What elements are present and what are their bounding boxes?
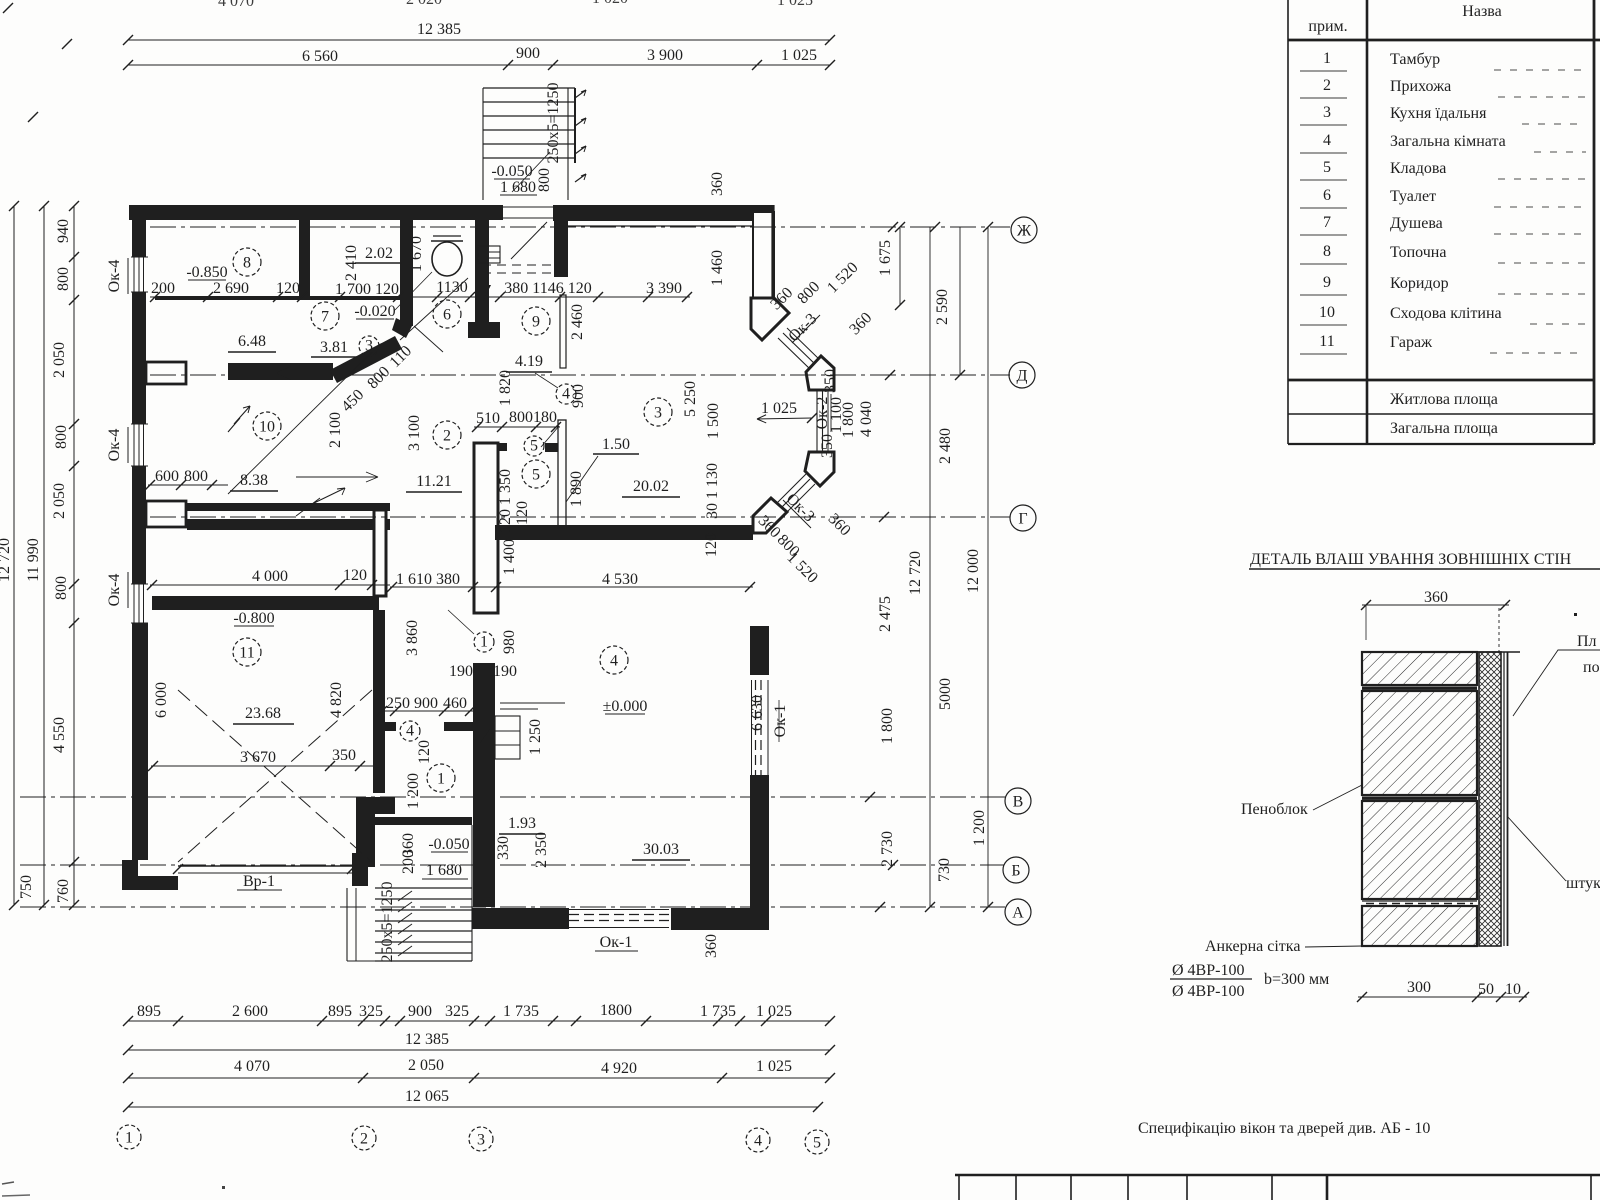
svg-text:20.02: 20.02: [633, 478, 669, 495]
entrance stair treads: [483, 88, 575, 200]
table row 7 Душева: [1300, 214, 1586, 235]
bottom axis circle 4: [746, 1128, 770, 1152]
svg-text:360: 360: [709, 172, 726, 196]
svg-text:10: 10: [259, 418, 275, 435]
svg-text:325: 325: [445, 1003, 469, 1020]
svg-text:Ок-1: Ок-1: [772, 705, 789, 738]
elevation mark room4: [603, 698, 648, 715]
dim row 4000-120 above garage: [147, 567, 390, 590]
svg-text:11.21: 11.21: [416, 473, 451, 490]
window Ок-4 upper glazing: [131, 257, 148, 292]
svg-text:Ок-4: Ок-4: [106, 260, 123, 293]
left exterior wall seg1: [132, 205, 146, 257]
stair room top wall: [375, 817, 472, 825]
svg-text:940: 940: [55, 219, 72, 243]
svg-text:ДЕТАЛЬ ВЛАШ УВАННЯ ЗОВНІШНІХ С: ДЕТАЛЬ ВЛАШ УВАННЯ ЗОВНІШНІХ СТІН: [1250, 551, 1572, 568]
svg-text:8.38: 8.38: [240, 472, 268, 489]
svg-text:2 480: 2 480: [937, 428, 954, 464]
toilet room left wall: [400, 217, 413, 326]
svg-text:Топочна: Топочна: [1390, 244, 1446, 261]
axis circle Г: [1010, 505, 1036, 531]
svg-text:2: 2: [360, 1130, 368, 1147]
bottom dim row2 12385: [123, 1031, 835, 1055]
svg-text:прим.: прим.: [1308, 18, 1347, 35]
svg-text:895: 895: [328, 1003, 352, 1020]
svg-text:190: 190: [493, 663, 517, 680]
svg-text:900: 900: [408, 1003, 432, 1020]
svg-text:4 040: 4 040: [858, 401, 875, 437]
entrance door gap lines: [503, 207, 553, 259]
svg-text:4 820: 4 820: [328, 682, 345, 718]
detail foam block 3: [1362, 801, 1477, 899]
svg-text:350: 350: [332, 747, 356, 764]
svg-text:360: 360: [1424, 589, 1448, 606]
room4 right wall upper: [750, 626, 769, 675]
bottom axis circle 3: [469, 1127, 493, 1151]
svg-text:1 735: 1 735: [503, 1003, 539, 1020]
svg-text:2 050: 2 050: [408, 1057, 444, 1074]
svg-text:4 000: 4 000: [252, 568, 288, 585]
svg-text:-0.850: -0.850: [186, 264, 227, 281]
svg-text:2: 2: [1323, 77, 1331, 94]
central thick wall: [473, 443, 507, 907]
svg-text:±0.000: ±0.000: [603, 698, 648, 715]
svg-text:2 050: 2 050: [51, 483, 68, 519]
detail title: [1249, 551, 1600, 569]
right exterior wall upper: [753, 205, 774, 300]
vent grille: [478, 246, 556, 273]
main stair treads: [375, 825, 472, 961]
svg-text:1 350: 1 350: [497, 469, 514, 505]
svg-text:5000: 5000: [937, 678, 954, 710]
area label 4.19: [506, 353, 552, 372]
door swing triangle hall: [483, 285, 491, 301]
svg-text:12 065: 12 065: [405, 1088, 449, 1105]
axis line В: [20, 796, 1005, 798]
svg-text:4 530: 4 530: [602, 571, 638, 588]
room circle 1 lower: [427, 764, 455, 792]
detail foam block 1: [1362, 652, 1477, 685]
dims room4: [703, 695, 789, 958]
svg-text:800: 800: [184, 468, 208, 485]
detail plaster layer lines: [1504, 652, 1508, 946]
bottom dim row4 12065: [123, 1088, 823, 1112]
toilet room bottom wall: [392, 318, 500, 338]
door swing room5: [541, 426, 559, 447]
room4 right wall lower: [750, 775, 769, 929]
garage gate right pier: [352, 853, 368, 886]
svg-text:330: 330: [495, 836, 512, 860]
bay dims rotated 45 upper: [767, 259, 875, 345]
svg-text:800: 800: [53, 576, 70, 600]
svg-text:-0.050: -0.050: [428, 836, 469, 853]
elevation mark garage: [233, 610, 274, 627]
stair porch side: [347, 888, 375, 961]
door mark circle 4 room1: [400, 721, 420, 741]
dim 1025 room3 with arrow: [757, 400, 817, 423]
axis line Б: [20, 864, 1004, 866]
svg-text:4: 4: [610, 652, 618, 669]
svg-text:Кухня їдальня: Кухня їдальня: [1390, 105, 1487, 122]
svg-text:1 800: 1 800: [840, 402, 857, 438]
window Ок-4 lower glazing: [131, 584, 148, 623]
svg-text:190: 190: [449, 663, 473, 680]
interior dim row under room8: [150, 279, 692, 302]
svg-text:1 820: 1 820: [497, 370, 514, 406]
svg-text:1: 1: [437, 770, 445, 787]
detail foam block 2: [1362, 691, 1477, 795]
svg-text:Гараж: Гараж: [1390, 334, 1433, 351]
detail dim 360: [1361, 589, 1510, 652]
bay dims Ок-2: [814, 369, 875, 458]
svg-text:1.93: 1.93: [508, 815, 536, 832]
svg-text:2 100: 2 100: [327, 412, 344, 448]
svg-text:900: 900: [414, 695, 438, 712]
detail foam block 4: [1362, 906, 1477, 946]
label 4BP-100 first: [1170, 962, 1252, 979]
room 7 bottom wall: [228, 363, 333, 380]
svg-text:Ø 4ВР-100: Ø 4ВР-100: [1172, 983, 1244, 1000]
svg-text:Ок-4: Ок-4: [106, 429, 123, 462]
svg-text:2 600: 2 600: [232, 1003, 268, 1020]
svg-text:6 000: 6 000: [153, 682, 170, 718]
svg-text:Душева: Душева: [1390, 215, 1443, 232]
door swing triangle room7: [276, 366, 291, 380]
arrow corridor room10: [296, 472, 378, 482]
table row 3 Кухня їдальня: [1300, 104, 1586, 125]
svg-text:325: 325: [359, 1003, 383, 1020]
area label 1.93: [499, 815, 545, 834]
svg-text:2 350: 2 350: [533, 832, 550, 868]
svg-text:12 000: 12 000: [965, 549, 982, 593]
svg-text:4: 4: [406, 722, 414, 739]
area label 8.38: [230, 472, 278, 491]
thin partition rooms 5-3: [558, 420, 566, 528]
svg-text:3 670: 3 670: [240, 749, 276, 766]
detail bottom dims: [1357, 979, 1529, 1002]
axis circle Д: [1009, 362, 1035, 388]
vertical wall between corridor and hall: [374, 510, 386, 596]
area label 30.03: [632, 841, 690, 860]
stair direction ticks: [379, 881, 412, 962]
svg-text:1 400: 1 400: [501, 539, 518, 575]
detail anchor mesh layer cross-hatched: [1479, 652, 1501, 946]
svg-text:750: 750: [18, 875, 35, 899]
toilet door swing: [414, 326, 443, 352]
inner wall face line room 9: [556, 225, 753, 227]
svg-text:6.48: 6.48: [238, 333, 266, 350]
svg-text:250х5=1250: 250х5=1250: [379, 881, 396, 962]
svg-text:Туалет: Туалет: [1390, 188, 1436, 205]
vent pier right of toilet: [554, 205, 568, 277]
toilet room right wall: [475, 205, 489, 325]
svg-text:120: 120: [497, 509, 514, 533]
bottom axis circle 2: [352, 1126, 376, 1150]
svg-text:2 020: 2 020: [406, 0, 442, 8]
svg-text:8: 8: [243, 254, 251, 271]
dims room1 door: [373, 539, 550, 874]
detail top line: [1362, 651, 1520, 653]
right window Ок-1 glazing: [752, 680, 769, 775]
window label Ок-4 lower: [106, 572, 128, 608]
svg-text:350: 350: [819, 434, 836, 458]
label Пл fragment: [1513, 633, 1600, 716]
svg-text:5: 5: [813, 1134, 821, 1151]
dim 600 800 corridor: [145, 468, 228, 490]
left dim chain 940-800-2050-800-2050-800-4550-760: [18, 201, 79, 910]
vent shaft room 1: [495, 703, 565, 759]
svg-text:Загальна площа: Загальна площа: [1390, 420, 1498, 437]
area label 23.68: [233, 705, 294, 724]
svg-text:250: 250: [386, 695, 410, 712]
svg-text:2.02: 2.02: [365, 245, 393, 262]
svg-text:200: 200: [400, 850, 417, 874]
door mark circle 5: [524, 436, 544, 456]
long wall under rooms 2-5-3: [495, 525, 753, 540]
svg-text:3.81: 3.81: [320, 339, 348, 356]
svg-text:180: 180: [533, 409, 557, 426]
toilet fixture: [431, 236, 463, 276]
svg-text:2: 2: [443, 427, 451, 444]
svg-text:3 100: 3 100: [406, 415, 423, 451]
detail mortar joints: [1362, 687, 1477, 904]
svg-text:Загальна кімната: Загальна кімната: [1390, 133, 1506, 150]
corridor wall 8.38 upper band: [187, 503, 390, 511]
window label Ок-4 middle: [106, 427, 128, 463]
svg-text:Пеноблок: Пеноблок: [1241, 801, 1308, 818]
svg-text:А: А: [1012, 904, 1024, 921]
svg-text:Пл: Пл: [1577, 633, 1597, 650]
svg-text:Г: Г: [1018, 510, 1027, 527]
svg-text:-0.050: -0.050: [491, 163, 532, 180]
left exterior wall seg3 with pier: [132, 466, 186, 584]
elevation mark room7: [354, 272, 432, 320]
svg-text:2 460: 2 460: [569, 304, 586, 340]
svg-text:3: 3: [365, 337, 373, 354]
svg-text:730: 730: [936, 858, 953, 882]
svg-text:1 800: 1 800: [879, 708, 896, 744]
svg-text:1 890: 1 890: [568, 471, 585, 507]
area label 11.21: [406, 473, 462, 492]
room circle 11: [233, 638, 261, 666]
svg-text:1 025: 1 025: [777, 0, 813, 9]
area label 20.02: [622, 478, 680, 497]
svg-text:5: 5: [532, 466, 540, 483]
door mark circle 3: [359, 336, 379, 356]
top wall right part: [553, 205, 774, 221]
bay window Ок-3 lower glazing: [772, 474, 815, 518]
svg-text:980: 980: [501, 630, 518, 654]
svg-text:Специфікацію вікон та дверей д: Специфікацію вікон та дверей див. АБ - 1…: [1138, 1120, 1430, 1137]
svg-text:Ø 4ВР-100: Ø 4ВР-100: [1172, 962, 1244, 979]
svg-text:1 025: 1 025: [756, 1003, 792, 1020]
svg-text:200: 200: [151, 280, 175, 297]
svg-text:800: 800: [509, 409, 533, 426]
room circle 6: [433, 300, 461, 328]
table row 5 Кладова: [1300, 159, 1586, 180]
svg-text:-0.800: -0.800: [233, 610, 274, 627]
svg-text:4: 4: [754, 1132, 762, 1149]
partition room2-5 stub: [545, 443, 558, 452]
leader diagonal room7 3.81: [228, 343, 415, 494]
svg-text:23.68: 23.68: [245, 705, 281, 722]
svg-text:2 730: 2 730: [879, 831, 896, 867]
thin partition room9-3: [560, 295, 566, 368]
room1 lower left corner walls: [356, 797, 395, 867]
svg-text:800: 800: [536, 168, 553, 192]
label штук fragment: [1507, 816, 1600, 892]
bay corner upper: [751, 298, 789, 340]
elevation mark room8: [186, 264, 227, 281]
svg-text:1 460: 1 460: [709, 250, 726, 286]
left dim line 12720: [0, 201, 19, 910]
bay window Ок-3 upper glazing: [778, 328, 821, 371]
svg-text:380 1146 120: 380 1146 120: [504, 280, 591, 297]
svg-text:Б: Б: [1011, 862, 1020, 879]
svg-text:460: 460: [443, 695, 467, 712]
entrance stair rotated dims: [512, 82, 562, 192]
svg-text:250х5=1250: 250х5=1250: [545, 82, 562, 163]
rotated dims upper rooms: [327, 172, 726, 557]
svg-text:760: 760: [55, 879, 72, 903]
svg-text:12 720: 12 720: [0, 538, 13, 582]
svg-text:1 250: 1 250: [527, 719, 544, 755]
area label 1.50: [566, 436, 639, 502]
axis line Д: [150, 374, 1010, 376]
left exterior wall seg2 with pier: [132, 292, 186, 424]
svg-text:1.50: 1.50: [602, 436, 630, 453]
svg-text:1 500: 1 500: [705, 403, 722, 439]
room circle 8: [233, 248, 261, 276]
axis circle Б: [1003, 857, 1029, 883]
table row 11 Гараж: [1300, 333, 1586, 354]
svg-text:11: 11: [1319, 333, 1334, 350]
table row 9 Коридор: [1300, 274, 1586, 295]
bay lower pier: [805, 452, 834, 486]
svg-text:В: В: [1013, 793, 1024, 810]
svg-text:Ок-4: Ок-4: [106, 574, 123, 607]
corridor wall 8.38 lower band: [187, 519, 390, 530]
svg-text:1 025: 1 025: [761, 400, 797, 417]
room circle 10: [253, 412, 281, 440]
dimension 12 385 top: [123, 21, 835, 45]
detail stray dot: [1574, 613, 1577, 616]
axis circle А: [1005, 899, 1031, 925]
svg-text:4: 4: [1323, 132, 1331, 149]
svg-text:360: 360: [703, 934, 720, 958]
garage left wall: [132, 623, 148, 860]
room circle 5: [522, 460, 550, 488]
top wall left part: [129, 205, 503, 220]
room1 left wall: [373, 610, 385, 793]
room circle 2: [433, 421, 461, 449]
svg-text:3: 3: [654, 404, 662, 421]
svg-text:1 670: 1 670: [408, 236, 425, 272]
bottom left stray marks: [2, 1182, 225, 1196]
svg-text:4 070: 4 070: [234, 1058, 270, 1075]
bottom axis circle 5: [805, 1130, 829, 1154]
svg-text:10: 10: [1319, 304, 1335, 321]
svg-text:350: 350: [822, 369, 839, 393]
window Ок-4 middle glazing: [131, 424, 148, 466]
svg-text:12 385: 12 385: [405, 1031, 449, 1048]
svg-text:2 690: 2 690: [213, 280, 249, 297]
svg-text:1: 1: [1323, 50, 1331, 67]
svg-text:9: 9: [532, 313, 540, 330]
svg-text:900: 900: [570, 384, 587, 408]
svg-text:3: 3: [477, 1131, 485, 1148]
svg-text:Сходова клітина: Сходова клітина: [1390, 305, 1502, 322]
dim 510 800 180 room2: [472, 409, 561, 432]
elevation -0.050 entrance: [491, 163, 537, 196]
squiggle arrow corridor 8.38: [296, 488, 345, 516]
axis circle Ж: [1011, 217, 1037, 243]
svg-text:120: 120: [514, 501, 531, 525]
svg-text:Назва: Назва: [1462, 3, 1501, 20]
svg-text:1 200: 1 200: [405, 773, 422, 809]
svg-text:6 560: 6 560: [302, 48, 338, 65]
svg-text:1 680: 1 680: [500, 179, 536, 196]
svg-text:1 025: 1 025: [781, 47, 817, 64]
door mark circle 1: [448, 610, 494, 652]
svg-text:Д: Д: [1017, 367, 1028, 384]
svg-text:1: 1: [125, 1129, 133, 1146]
left dim line 11990: [25, 201, 49, 910]
bathroom wall 8-2.02 divider: [299, 217, 310, 297]
svg-text:30.03: 30.03: [643, 841, 679, 858]
door swing triangle room1: [480, 729, 490, 743]
svg-text:2 590: 2 590: [934, 289, 951, 325]
area label 6.48: [228, 333, 276, 352]
svg-text:5: 5: [530, 437, 538, 454]
svg-text:11 990: 11 990: [25, 538, 42, 581]
door swing room6: [400, 278, 468, 340]
svg-text:1 700 120: 1 700 120: [335, 281, 399, 298]
room circle 4: [600, 646, 628, 674]
svg-text:3 860: 3 860: [404, 620, 421, 656]
dim row 1610-380-4530: [387, 571, 755, 592]
svg-text:9: 9: [1323, 274, 1331, 291]
window label Ок-1 bottom: [595, 934, 638, 951]
table row 1 Тамбур: [1300, 50, 1586, 71]
svg-text:4 550: 4 550: [51, 717, 68, 753]
svg-text:900: 900: [516, 45, 540, 62]
svg-text:11: 11: [239, 644, 254, 661]
window label Ок-4 upper: [106, 258, 128, 294]
wall with door room 1: [382, 722, 473, 731]
svg-text:Ок-1: Ок-1: [600, 934, 633, 951]
svg-text:1 735: 1 735: [700, 1003, 736, 1020]
elevation -0.050 stair room: [422, 836, 470, 879]
svg-text:2 475: 2 475: [877, 596, 894, 632]
svg-text:по: по: [1583, 659, 1600, 676]
door mark circle 4 hall: [535, 373, 576, 404]
svg-text:50: 50: [1478, 981, 1494, 998]
svg-text:120: 120: [343, 567, 367, 584]
svg-text:Житлова площа: Житлова площа: [1390, 391, 1498, 408]
title block grid: [955, 1175, 1600, 1200]
entrance stair arrows: [575, 90, 586, 182]
right dim verticals: [895, 222, 993, 912]
top cut dimension row: [3, 0, 813, 122]
svg-text:4 070: 4 070: [218, 0, 254, 10]
svg-text:800: 800: [53, 425, 70, 449]
room circle 3: [644, 398, 672, 426]
bottom wall room1 left of window: [472, 908, 569, 929]
svg-text:12 385: 12 385: [417, 21, 461, 38]
svg-text:4 920: 4 920: [601, 1060, 637, 1077]
svg-text:7: 7: [321, 308, 329, 325]
